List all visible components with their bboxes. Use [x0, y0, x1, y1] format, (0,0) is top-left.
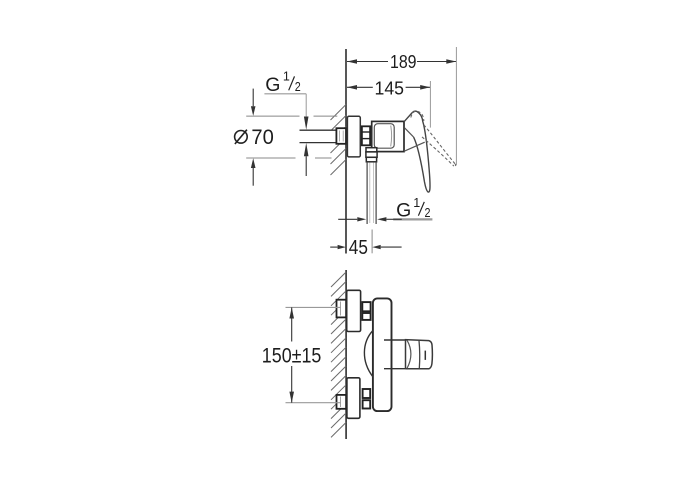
- svg-text:1: 1: [413, 196, 420, 210]
- cap lower facet: [404, 142, 425, 151]
- wall section line (front view): [345, 270, 347, 439]
- upper union hex facets: [362, 302, 370, 311]
- mixer body (front view): [373, 298, 392, 411]
- label G 1/2 top leader line: [264, 93, 306, 95]
- svg-text:1: 1: [283, 70, 290, 84]
- knob divider line: [418, 340, 421, 368]
- dimension diameter 70 extension lines: [246, 115, 299, 117]
- dimension 145 line: [347, 86, 373, 88]
- svg-text:70: 70: [251, 125, 273, 149]
- dimension 189 line: [347, 61, 388, 63]
- lever hook dashed (open position): [411, 111, 424, 121]
- svg-text:145: 145: [375, 78, 405, 99]
- lower union hex facets: [363, 389, 371, 398]
- lever hook and blade (solid, closed position): [412, 111, 430, 192]
- dimension diameter 70 arrows: [252, 89, 254, 107]
- wall hatching (side view): [331, 105, 347, 176]
- svg-text:G: G: [396, 199, 411, 221]
- svg-text:2: 2: [295, 80, 301, 94]
- hex union connector (side view): [362, 126, 370, 145]
- dimension 189 extension line: [455, 47, 457, 165]
- lever blade dashed tip: [454, 164, 456, 166]
- lever blade dashed lower edge: [422, 137, 454, 166]
- label diameter 70: [235, 131, 248, 144]
- dimension 45 centre extension line: [371, 230, 373, 254]
- lower pipe nut (front view): [337, 395, 347, 409]
- G 1/2 thread arrows at pipe: [304, 117, 309, 130]
- label G 1/2 bottom leader underline: [393, 218, 432, 220]
- svg-text:2: 2: [425, 206, 431, 220]
- supply pipe nipple behind wall: [300, 130, 337, 142]
- G 1/2 outlet arrows: [338, 218, 357, 220]
- upper inlet pipe centreline: [286, 306, 342, 308]
- svg-text:G: G: [265, 74, 280, 96]
- cap top edge: [404, 113, 412, 122]
- svg-text:150±15: 150±15: [262, 343, 322, 367]
- cap upper facet: [404, 128, 413, 138]
- body waist bulge: [364, 331, 373, 377]
- shower outlet thread pipe: [366, 162, 368, 224]
- upper escutcheon (front view): [347, 290, 361, 331]
- pipe nut at wall: [336, 128, 346, 144]
- wall section line (side view): [345, 49, 347, 254]
- svg-text:189: 189: [390, 51, 417, 72]
- svg-text:45: 45: [349, 237, 368, 259]
- lever blade dashed upper edge: [424, 125, 455, 164]
- dimension 45 line: [330, 246, 337, 248]
- lever knob seen end-on: [406, 340, 433, 369]
- wall hatching (front view): [331, 272, 346, 437]
- upper pipe nut (front view): [337, 300, 347, 318]
- cartridge cover plate: [374, 124, 394, 149]
- lower escutcheon (front view): [347, 378, 360, 419]
- dimension 145 extension line: [429, 81, 431, 128]
- knob cylinder silhouette arc: [407, 340, 411, 368]
- knob face tick: [424, 351, 426, 360]
- dimension 150 plus-minus 15: [291, 307, 293, 341]
- valve neck: [384, 339, 406, 341]
- shower outlet flange: [366, 148, 377, 152]
- mixer body (side view): [372, 121, 404, 151]
- lower inlet pipe centreline: [286, 402, 342, 404]
- escutcheon flange (side view): [347, 116, 360, 157]
